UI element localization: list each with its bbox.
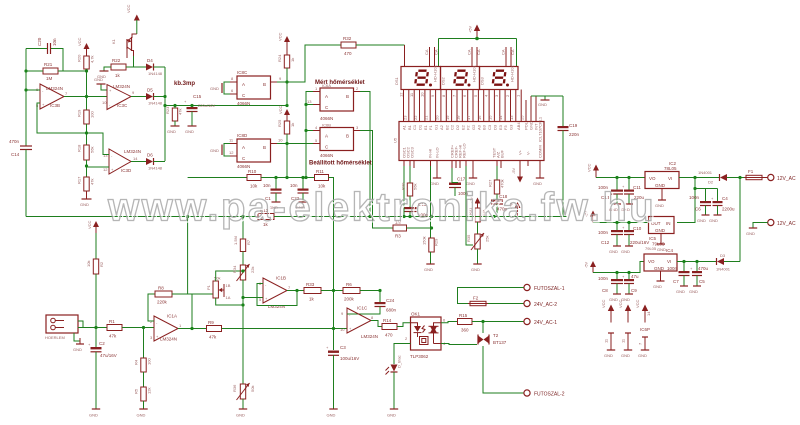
svg-text:4: 4 [484, 94, 489, 97]
wire IC3D output [131, 161, 146, 163]
svg-text:CA: CA [467, 49, 472, 55]
diode D3 [716, 253, 731, 272]
svg-text:GND: GND [609, 297, 618, 302]
wire R2 down through node [95, 274, 97, 347]
svg-text:IC3C: IC3C [117, 103, 128, 108]
svg-text:100: 100 [90, 111, 95, 118]
svg-text:1M: 1M [46, 76, 53, 81]
display DS2 box [441, 67, 480, 90]
svg-text:-: - [109, 102, 111, 107]
svg-text:12: 12 [103, 167, 108, 172]
wire -5V rail [593, 262, 644, 273]
svg-text:C1: C1 [412, 124, 417, 130]
node rail/output [85, 95, 88, 98]
svg-text:R33: R33 [306, 282, 315, 287]
svg-text:G1: G1 [434, 124, 439, 130]
svg-text:22: 22 [413, 115, 418, 120]
op-amp IC1A [150, 314, 182, 342]
capacitor C8 [598, 273, 623, 303]
wire OK1 pin6 to R16 [441, 322, 458, 323]
wire triac column [482, 322, 484, 334]
svg-text:23: 23 [403, 115, 408, 120]
svg-text:GND: GND [137, 413, 146, 418]
svg-text:10: 10 [340, 327, 345, 332]
wire diode to fuse node [727, 177, 746, 179]
svg-text:6: 6 [443, 318, 446, 323]
svg-text:GND: GND [697, 218, 706, 223]
svg-text:220k: 220k [157, 300, 168, 305]
wire IC4 in row [677, 261, 716, 263]
svg-text:COMM: COMM [538, 145, 543, 158]
svg-text:C20: C20 [37, 37, 42, 46]
svg-text:BUF: BUF [500, 149, 505, 158]
svg-text:6: 6 [231, 88, 234, 93]
svg-text:R32: R32 [343, 36, 352, 41]
svg-text:C3: C3 [487, 124, 492, 130]
-8V arrow [584, 210, 597, 222]
LED D_triac [386, 355, 402, 374]
svg-text:4066N: 4066N [237, 101, 250, 106]
svg-text:C4: C4 [722, 196, 728, 201]
svg-text:GND: GND [387, 413, 396, 418]
svg-text:GND: GND [746, 231, 755, 236]
terminal 12V_AC 2 [746, 219, 796, 236]
svg-text:25: 25 [520, 115, 525, 120]
svg-text:C24: C24 [386, 298, 395, 303]
resistor R14 [382, 318, 397, 338]
svg-text:VO: VO [649, 176, 656, 181]
svg-text:IN: IN [666, 221, 671, 226]
regulator IC4 [644, 246, 677, 289]
svg-text:D3: D3 [492, 124, 497, 130]
svg-text:B: B [346, 94, 349, 99]
VCC tie column 3 IC6P [635, 299, 651, 358]
svg-text:D3: D3 [720, 253, 726, 258]
svg-text:C: C [242, 156, 246, 161]
resistor R22 [111, 58, 126, 78]
IC U5 ICL7107 [399, 122, 544, 161]
wire IC6A out down [360, 92, 370, 217]
wire R10 to R11 [261, 177, 315, 179]
svg-text:REF-LO: REF-LO [462, 143, 467, 158]
terminal FUTOSZAL-1 [524, 284, 565, 292]
optocoupler OK1 TLP3062 [405, 312, 446, 360]
svg-text:56k: 56k [90, 147, 95, 153]
svg-text:10: 10 [420, 92, 425, 97]
svg-text:21: 21 [424, 115, 429, 120]
svg-text:12V_AC: 12V_AC [777, 221, 796, 227]
svg-text:IN-LO: IN-LO [435, 147, 440, 158]
wire long bottom rail [26, 216, 258, 218]
ground U5 pin [430, 168, 441, 186]
-5V arrow R31 column [469, 196, 481, 208]
svg-text:R15: R15 [459, 313, 468, 318]
svg-text:IC6P: IC6P [640, 327, 650, 332]
ground R5 [137, 401, 148, 418]
oscillator pin column 1 [403, 166, 405, 217]
svg-text:OK1: OK1 [411, 312, 421, 317]
capacitor C16 [405, 202, 429, 218]
svg-text:-: - [42, 88, 44, 93]
svg-text:LM324N: LM324N [160, 337, 177, 342]
wire OK1 pin4 to triac gate [441, 344, 477, 345]
svg-text:D6: D6 [147, 153, 153, 158]
terminal 24V_AC-2 [488, 300, 557, 308]
resistor R24 [277, 54, 295, 68]
display DS1 box [401, 67, 441, 90]
svg-text:1N4148: 1N4148 [148, 101, 163, 106]
column R4 R5 [143, 328, 145, 359]
-5V arrow low [584, 261, 597, 273]
svg-text:B: B [263, 145, 266, 150]
svg-text:kb.3mp: kb.3mp [174, 81, 195, 87]
svg-text:E1: E1 [423, 124, 428, 130]
svg-text:R20: R20 [77, 54, 82, 62]
svg-text:IC8D: IC8D [237, 133, 248, 138]
svg-text:1N4148: 1N4148 [148, 71, 163, 76]
svg-text:100u/16V: 100u/16V [340, 356, 359, 361]
IC6B 4066 switch [313, 123, 360, 159]
VCC tie column 2 [618, 299, 632, 358]
svg-text:C17: C17 [457, 177, 466, 182]
resistor R6 [343, 282, 360, 302]
svg-text:CA: CA [510, 49, 515, 55]
svg-text:VI: VI [668, 176, 672, 181]
svg-text:K1: K1 [111, 38, 116, 44]
resistor R21 [43, 62, 58, 81]
svg-text:IC3D: IC3D [121, 168, 132, 173]
svg-text:24V_AC-2: 24V_AC-2 [534, 302, 557, 308]
svg-text:7: 7 [452, 94, 457, 97]
svg-text:12V_AC: 12V_AC [777, 176, 796, 182]
svg-text:VCC: VCC [635, 299, 640, 308]
svg-text:-5V: -5V [511, 167, 516, 174]
svg-text:LM324N: LM324N [268, 304, 285, 309]
VCC arrow sensor [87, 220, 99, 234]
wire IC3D plus [87, 166, 110, 168]
svg-text:A: A [242, 145, 245, 150]
capacitor C18 [491, 194, 508, 217]
diode D6 [146, 153, 163, 171]
wire long rail right part [274, 216, 567, 218]
wire R1 to IC1A [122, 327, 154, 329]
svg-text:7: 7 [288, 285, 291, 290]
svg-text:D5: D5 [147, 88, 153, 93]
svg-text:-: - [156, 320, 158, 325]
capacitor C15 [184, 94, 215, 134]
svg-text:F3: F3 [503, 125, 508, 130]
triac T2 BT137 [478, 333, 507, 345]
svg-text:GND: GND [638, 353, 647, 358]
ground R22 left [97, 67, 111, 79]
svg-text:GND: GND [471, 267, 480, 272]
svg-text:VCC: VCC [601, 299, 606, 308]
svg-text:3: 3 [356, 125, 359, 130]
wire R15 to terminal [472, 321, 524, 323]
svg-text:Beállított hőmérséklet: Beállított hőmérséklet [309, 161, 372, 167]
ground R17 [80, 191, 92, 207]
wire OK1 cathode to LED [394, 344, 411, 365]
resistor R7 [233, 217, 251, 252]
svg-text:F1: F1 [748, 169, 754, 174]
svg-text:360: 360 [461, 328, 469, 333]
diode D2 [698, 170, 727, 185]
wire R21 leads [26, 70, 43, 72]
resistor R2 [86, 259, 104, 274]
svg-text:C5: C5 [699, 279, 705, 284]
capacitor C14 [9, 139, 32, 157]
svg-text:OSC3: OSC3 [410, 146, 415, 158]
wire IC8D pin10 row [277, 143, 313, 145]
svg-text:GND: GND [657, 247, 666, 252]
capacitor C20 [37, 37, 57, 54]
svg-text:1A: 1A [226, 295, 231, 300]
display segment pins to U5 [404, 90, 537, 122]
svg-text:R3: R3 [395, 234, 401, 239]
svg-text:47u: 47u [631, 274, 639, 279]
+5V arrow displays [468, 25, 481, 41]
digit 8 DS2 [454, 71, 467, 85]
input node column R29 [430, 166, 432, 238]
wire C14 bottom to long bottom rail [25, 150, 27, 217]
wire IC3D minus [87, 133, 110, 155]
svg-text:C9: C9 [631, 288, 637, 293]
svg-text:25k: 25k [485, 236, 490, 242]
ground loop top right of U5 [531, 96, 563, 107]
wire R22 to D4 [126, 66, 146, 68]
svg-text:G2: G2 [471, 124, 476, 130]
resistor R10 [247, 169, 261, 189]
svg-text:GND: GND [653, 284, 662, 289]
svg-text:R8: R8 [158, 286, 164, 291]
svg-text:GND: GND [185, 129, 194, 134]
wire R33 to R6 [321, 290, 343, 292]
svg-text:79L05: 79L05 [645, 246, 657, 251]
svg-text:14: 14 [646, 311, 651, 316]
wire timing node row [165, 105, 287, 107]
svg-text:1k: 1k [290, 58, 295, 62]
wire R3 to input node [407, 227, 432, 229]
capacitor C11 [621, 178, 645, 213]
capacitor C13 [598, 178, 623, 213]
svg-text:2: 2 [356, 86, 359, 91]
svg-text:1: 1 [315, 86, 318, 91]
svg-text:A: A [325, 134, 328, 139]
svg-text:VO: VO [648, 259, 655, 264]
wire C20 right lead to rail [51, 49, 87, 72]
VCC arrow R24 [278, 32, 291, 55]
svg-text:100n: 100n [689, 195, 700, 200]
wire R34 down long [242, 280, 244, 384]
resistor R18 [77, 144, 95, 160]
svg-text:CA: CA [476, 49, 481, 55]
svg-text:20: 20 [435, 115, 440, 120]
svg-text:C12: C12 [601, 240, 610, 245]
svg-text:FUTOSZAL-1: FUTOSZAL-1 [534, 286, 565, 292]
node divider mid [85, 131, 88, 134]
wire cap feed row [695, 188, 718, 190]
svg-text:A: A [242, 82, 245, 87]
svg-text:100n: 100n [667, 266, 678, 271]
svg-text:GND: GND [327, 413, 336, 418]
svg-text:DS1: DS1 [394, 76, 399, 85]
ground IC3C plus [94, 77, 107, 90]
svg-text:HD-H101: HD-H101 [433, 65, 438, 82]
svg-text:GND: GND [621, 249, 630, 254]
svg-text:220n: 220n [569, 132, 580, 137]
svg-text:R22: R22 [112, 58, 121, 63]
op-amp IC3C [102, 84, 135, 110]
svg-text:DS2: DS2 [441, 76, 446, 85]
svg-text:C6: C6 [695, 207, 701, 212]
node divider low [85, 164, 88, 167]
wire VCC to R2 [95, 233, 97, 259]
svg-text:-5V: -5V [584, 261, 589, 268]
svg-text:GND: GND [94, 77, 103, 82]
wire IC1A out [178, 328, 207, 330]
pin number labels row [399, 92, 521, 97]
wire vcc rail vertical [86, 69, 88, 110]
svg-text:22k: 22k [250, 267, 255, 273]
capacitor C1 [263, 178, 282, 211]
svg-text:VI: VI [667, 259, 671, 264]
wire futoszal-1 to F2 [458, 288, 524, 304]
capacitor C6 [689, 189, 711, 224]
svg-text:GND: GND [236, 413, 245, 418]
svg-text:11: 11 [604, 338, 609, 343]
ground U5 comm [533, 168, 544, 186]
resistor R1 [107, 319, 122, 339]
svg-text:10: 10 [278, 138, 283, 143]
svg-text:R10: R10 [248, 169, 257, 174]
svg-text:LM324N: LM324N [124, 149, 141, 154]
trimmer R34 [232, 252, 255, 282]
svg-text:CA: CA [424, 49, 429, 55]
svg-text:A: A [325, 94, 328, 99]
VCC tie column 1 [601, 299, 615, 358]
svg-text:8: 8 [231, 76, 234, 81]
svg-text:VCC: VCC [126, 4, 131, 13]
svg-text:T2: T2 [493, 333, 499, 338]
wire R11 to IC1C column [329, 178, 334, 329]
watermark [107, 186, 658, 232]
svg-text:-: - [265, 282, 267, 287]
svg-text:HOERLEM: HOERLEM [45, 335, 65, 340]
capacitor C17 [449, 168, 469, 196]
capacitor C7 [667, 262, 690, 295]
svg-text:HD-H101: HD-H101 [472, 65, 477, 82]
resistor R2ref [488, 166, 505, 194]
display DS3 box [480, 67, 519, 90]
svg-text:9: 9 [430, 94, 435, 97]
svg-text:D_triac: D_triac [397, 355, 402, 368]
svg-text:R11: R11 [316, 169, 324, 174]
svg-text:GND: GND [73, 347, 82, 352]
svg-text:C: C [325, 105, 329, 110]
svg-text:B: B [263, 82, 266, 87]
svg-text:9: 9 [341, 311, 344, 316]
svg-text:INT: INT [534, 123, 539, 130]
svg-text:16: 16 [477, 115, 482, 120]
resistor R19 [77, 109, 95, 124]
svg-text:V+: V+ [518, 149, 523, 155]
wire REF-HI column [466, 166, 473, 245]
svg-text:LM324N: LM324N [361, 334, 378, 339]
svg-text:G3: G3 [509, 124, 514, 130]
svg-text:IC1B: IC1B [276, 276, 286, 281]
wire IC1A minus from R8 [148, 294, 155, 321]
ground IC8C [210, 82, 230, 94]
connector HOERLEM [45, 315, 78, 340]
wire R19 to R18 [86, 124, 88, 145]
resistor R31 [468, 207, 486, 234]
wire C20 left lead [26, 48, 47, 50]
svg-text:VCC: VCC [77, 37, 82, 46]
wire IC1C out to R14 [371, 321, 382, 327]
terminal FUTOSZAL-2 [524, 390, 565, 398]
svg-text:1k: 1k [115, 73, 121, 78]
svg-text:2: 2 [505, 94, 510, 97]
trimmer R35 [466, 233, 490, 272]
svg-text:IC1C: IC1C [357, 306, 368, 311]
svg-text:D2: D2 [708, 180, 714, 185]
svg-text:GND: GND [424, 267, 433, 272]
svg-text:15: 15 [488, 115, 493, 120]
svg-text:V-: V- [526, 151, 531, 155]
svg-text:47k: 47k [90, 179, 95, 185]
svg-text:D1: D1 [418, 124, 423, 130]
svg-text:+: + [622, 274, 625, 279]
svg-text:C2: C2 [450, 124, 455, 130]
wire R14 to OK1 [397, 323, 411, 327]
node junction R21/rail [85, 69, 88, 72]
wire IC3B output row [64, 96, 107, 98]
svg-text:R24: R24 [277, 54, 282, 62]
wire IC3C output [131, 96, 146, 98]
fuse F1 [744, 169, 764, 180]
wire +12V rail [596, 177, 645, 179]
svg-text:R5: R5 [134, 388, 139, 394]
svg-text:D2: D2 [455, 124, 460, 130]
svg-text:GND: GND [538, 102, 547, 107]
wire left loop vertical [25, 49, 27, 147]
svg-text:C: C [325, 145, 329, 150]
svg-text:14: 14 [133, 156, 138, 161]
op-amp IC3B [36, 84, 68, 109]
regulator IC5 79L05 [649, 217, 675, 253]
svg-text:R21: R21 [44, 62, 53, 67]
resistor R9 [207, 320, 222, 340]
svg-text:E3: E3 [498, 124, 503, 130]
svg-text:GND: GND [609, 249, 618, 254]
svg-text:9: 9 [279, 76, 282, 81]
wire IC6A control loop [306, 92, 313, 178]
resistor R29 [422, 236, 439, 272]
capacitor C22 [290, 178, 309, 211]
op-amp IC1B [259, 276, 291, 310]
svg-text:IC1A: IC1A [167, 314, 177, 319]
svg-text:GND: GND [210, 86, 219, 91]
svg-text:2200u: 2200u [722, 207, 735, 212]
wire ref divider column from rail [188, 217, 213, 295]
wire -8V rail [593, 222, 649, 224]
svg-text:C14: C14 [11, 152, 20, 157]
ground LED [387, 372, 398, 418]
wire diode bus vertical [164, 67, 166, 161]
svg-text:13: 13 [103, 153, 108, 158]
svg-text:A3: A3 [476, 124, 481, 130]
svg-text:150k: 150k [422, 236, 427, 245]
